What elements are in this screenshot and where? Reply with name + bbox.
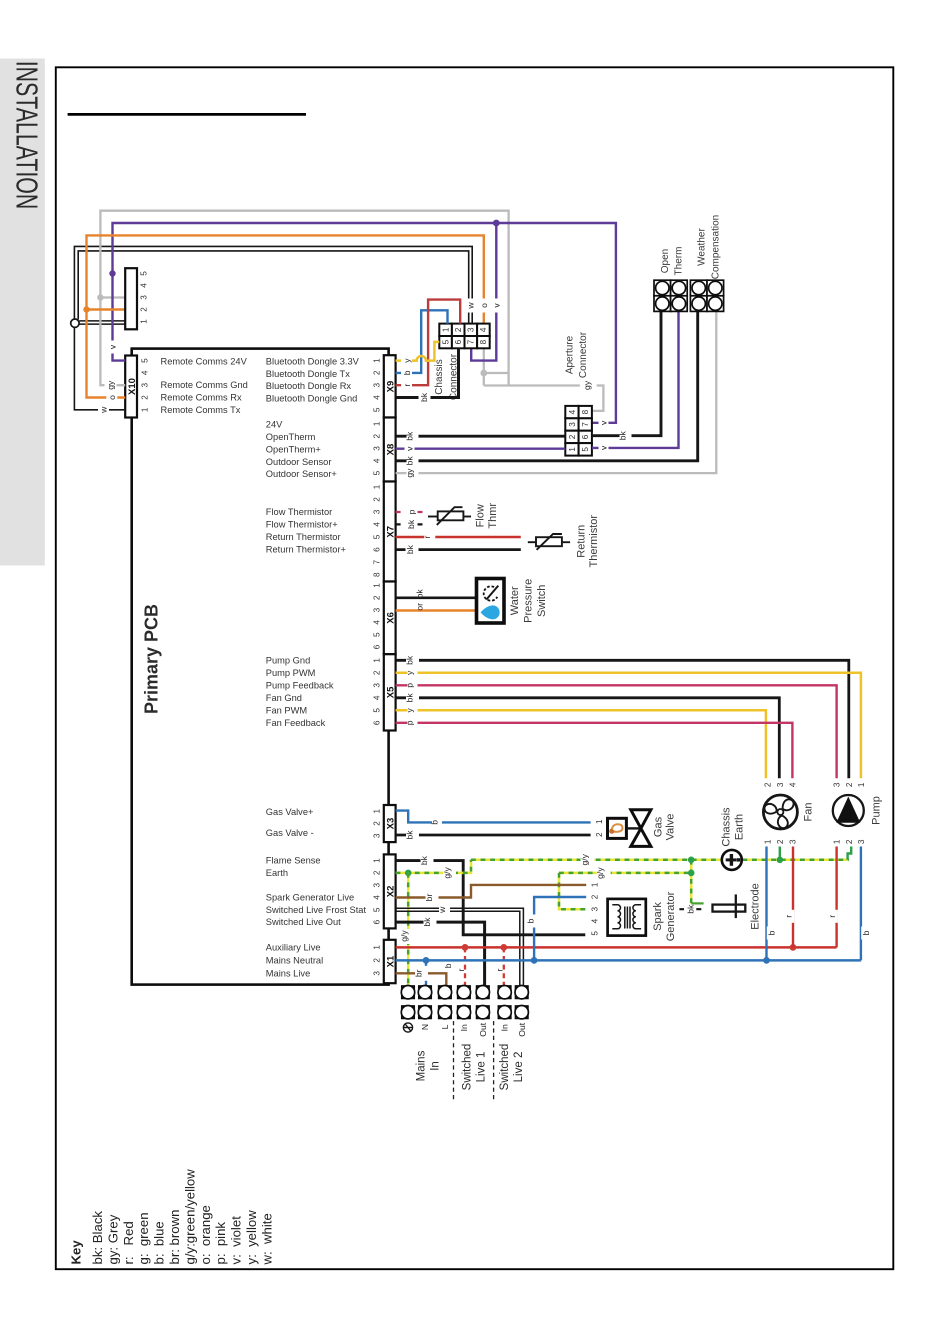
gas valve coil box [608, 818, 627, 838]
svg-text:Thmr: Thmr [487, 503, 499, 529]
svg-text:bk: bk [419, 855, 429, 865]
svg-text:bk: bk [405, 655, 415, 665]
svg-text:Return Thermistor: Return Thermistor [266, 532, 341, 542]
X7 pin function labels [266, 507, 346, 555]
svg-text:7: 7 [372, 559, 381, 564]
svg-text:2: 2 [845, 839, 854, 844]
svg-text:Flame Sense: Flame Sense [266, 856, 321, 866]
wire green fan pin2 to earth line [779, 847, 781, 860]
svg-text:Bluetooth Dongle 3.3V: Bluetooth Dongle 3.3V [266, 357, 360, 367]
svg-text:8: 8 [479, 339, 488, 344]
X10 pin numbers [140, 358, 149, 412]
svg-text:X5: X5 [386, 686, 397, 698]
label o [106, 391, 117, 404]
svg-text:b: b [766, 930, 776, 935]
label bk [405, 828, 420, 843]
aperture connector grid [565, 406, 592, 456]
wire pink X7 pin3 flow thermistor [396, 511, 423, 513]
pass-through connector pin numbers [140, 271, 149, 324]
svg-text:Remote Comms Tx: Remote Comms Tx [161, 405, 241, 415]
svg-text:o: o [479, 303, 489, 308]
svg-text:Bluetooth Dongle Rx: Bluetooth Dongle Rx [266, 381, 352, 391]
page border [56, 67, 894, 1269]
svg-text:N: N [420, 1024, 430, 1030]
svg-text:Flow Thermistor+: Flow Thermistor+ [266, 520, 338, 530]
svg-text:Electrode: Electrode [750, 883, 762, 929]
svg-text:Connector: Connector [578, 331, 589, 378]
svg-text:4: 4 [568, 409, 577, 414]
wire g/y X2 pin2 earth riser [396, 860, 471, 873]
svg-text:Chassis: Chassis [434, 359, 445, 395]
svg-text:Compensation: Compensation [710, 215, 721, 279]
wire blue fan pin1 to neutral [765, 847, 767, 961]
return thermistor symbol [528, 534, 570, 550]
svg-text:1: 1 [372, 421, 381, 426]
svg-text:1: 1 [372, 858, 381, 863]
svg-text:Switched: Switched [461, 1044, 473, 1091]
junction dot grey [480, 370, 487, 377]
svg-text:bk: bk [405, 544, 415, 554]
wire black X5 pin4 fan gnd [396, 698, 780, 778]
wire black X2 pin6 switched live out [396, 922, 485, 986]
svg-text:br: brown: br: brown [167, 1210, 182, 1265]
svg-text:Outdoor Sensor+: Outdoor Sensor+ [266, 469, 337, 479]
wire orange X6 pin3 to water pressure switch [396, 609, 477, 611]
group separator dashed [453, 1021, 455, 1101]
svg-text:3: 3 [140, 295, 149, 300]
X2 pin function labels [266, 856, 367, 928]
wire blue pump pin3 to neutral [860, 847, 862, 961]
svg-text:2: 2 [568, 434, 577, 439]
svg-text:Out: Out [478, 1022, 488, 1036]
svg-text:w: white: w: white [259, 1213, 274, 1265]
svg-text:r: r [827, 915, 837, 918]
svg-text:X8: X8 [386, 444, 397, 456]
svg-text:5: 5 [441, 339, 450, 344]
electrode lead green foot [691, 902, 703, 904]
svg-text:Mains Neutral: Mains Neutral [266, 955, 323, 965]
label bk [419, 853, 434, 868]
wire green pump pin2 to earth line [848, 847, 852, 860]
fan pin numbers bottom [764, 839, 798, 844]
svg-text:Pump Feedback: Pump Feedback [266, 680, 334, 690]
svg-text:Switched Live Out: Switched Live Out [266, 917, 341, 927]
svg-text:6: 6 [454, 339, 463, 344]
svg-text:w: w [437, 906, 447, 914]
svg-text:gy: Grey: gy: Grey [105, 1214, 120, 1264]
wire white remote comms (double line inner) [78, 251, 469, 324]
svg-text:o: o [107, 395, 117, 400]
svg-text:2: 2 [591, 894, 600, 899]
svg-text:OpenTherm+: OpenTherm+ [266, 444, 321, 454]
label y X5 pin5 [405, 704, 418, 717]
wire black aperture cell6 to open therm [592, 312, 661, 436]
remote comms pass-through connector [125, 268, 137, 329]
svg-text:X9: X9 [386, 381, 397, 393]
wire blue drop to mains N terminal [425, 960, 427, 985]
junction dots red [462, 944, 469, 951]
svg-text:v: v [491, 303, 501, 308]
svg-text:w: w [99, 406, 109, 414]
earth terminal symbol [403, 1023, 412, 1032]
connector strip X10 [125, 356, 137, 418]
svg-text:2: 2 [140, 395, 149, 400]
svg-text:1: 1 [764, 839, 773, 844]
water pressure switch box [477, 579, 505, 624]
svg-text:3: 3 [568, 422, 577, 427]
wire black X8 pin4 outdoor sensor to weather comp [396, 312, 698, 461]
svg-text:5: 5 [591, 931, 600, 936]
svg-text:Flow Thermistor: Flow Thermistor [266, 507, 332, 517]
svg-text:Aperture: Aperture [564, 335, 575, 374]
svg-text:Generator: Generator [665, 891, 677, 941]
svg-text:bk: bk [406, 519, 416, 529]
mains terminal block row1 [401, 986, 528, 999]
svg-text:In: In [500, 1024, 510, 1031]
X3 pin function labels [266, 807, 314, 838]
svg-text:Fan: Fan [803, 803, 815, 822]
svg-text:bk: Black: bk: Black [90, 1211, 105, 1265]
X10 pin function labels [161, 357, 248, 415]
svg-text:4: 4 [140, 283, 149, 288]
svg-text:1: 1 [372, 484, 381, 489]
aperture connector pin numbers [568, 409, 590, 451]
wire g/y earth branch line 2 [559, 860, 691, 909]
svg-text:gy: gy [582, 380, 592, 390]
pump symbol [833, 795, 864, 826]
svg-text:Auxiliary Live: Auxiliary Live [266, 942, 321, 952]
pump pin numbers bottom [833, 839, 866, 844]
svg-text:Gas Valve -: Gas Valve - [266, 828, 314, 838]
label bk [405, 542, 419, 557]
label v chassis [491, 299, 501, 313]
svg-text:3: 3 [467, 327, 476, 332]
wire black X2 pin1 flame sense to spark pin5 [396, 861, 586, 935]
svg-text:5: 5 [140, 358, 149, 363]
svg-text:5: 5 [140, 271, 149, 276]
svg-text:1: 1 [372, 808, 381, 813]
svg-text:Spark: Spark [652, 902, 664, 931]
wire black X7 pin6 return thermistor+ [396, 548, 521, 551]
svg-text:Fan Feedback: Fan Feedback [266, 718, 326, 728]
wire blue X9 pin2 to chassis cell1 [396, 310, 448, 373]
svg-text:y: y [402, 358, 412, 363]
svg-text:b: b [526, 918, 536, 923]
svg-text:1: 1 [857, 782, 866, 787]
svg-text:g/y: g/y [442, 866, 452, 878]
label g/y main [580, 852, 595, 867]
wire violet aperture cell5 to open therm [592, 312, 679, 448]
pump pin numbers top [833, 782, 866, 787]
svg-text:4: 4 [479, 327, 488, 332]
label b [861, 927, 871, 940]
svg-text:X7: X7 [386, 526, 397, 538]
svg-text:Chassis: Chassis [720, 807, 732, 847]
X8 pin function labels [266, 419, 337, 479]
svg-text:8: 8 [372, 572, 381, 577]
svg-text:r: r [402, 384, 412, 387]
svg-text:Remote Comms Rx: Remote Comms Rx [161, 393, 242, 403]
junction dot green X2 pin2 [405, 870, 412, 877]
svg-text:Key: Key [69, 1240, 84, 1265]
svg-text:Valve: Valve [664, 814, 676, 841]
svg-text:or: or [415, 603, 425, 611]
label v [107, 341, 118, 354]
svg-text:r: Red: r: Red [121, 1221, 136, 1264]
svg-text:r: r [783, 915, 793, 918]
svg-text:Weather: Weather [696, 228, 707, 266]
junction open circle [71, 319, 79, 327]
svg-text:2: 2 [372, 497, 381, 502]
svg-text:Earth: Earth [733, 814, 745, 840]
svg-text:g/y:green/yellow: g/y:green/yellow [182, 1169, 197, 1265]
svg-text:br: br [424, 894, 434, 902]
X8 pin numbers [372, 421, 381, 475]
svg-text:gy: gy [106, 380, 116, 390]
double link circle to connector pin1 [79, 321, 125, 324]
svg-text:Mains: Mains [415, 1050, 427, 1081]
label w [98, 403, 109, 416]
wire blue riser to spark pin2 [534, 897, 586, 960]
svg-text:Pressure: Pressure [523, 579, 535, 623]
wire black X8 pin2 to aperture cell2 [396, 435, 566, 438]
wire black X5 pin1 pump gnd [396, 660, 849, 778]
svg-text:g/y: g/y [595, 867, 605, 879]
junction dot violet [493, 220, 500, 227]
svg-text:6: 6 [581, 434, 590, 439]
svg-text:3: 3 [788, 839, 797, 844]
wire white X2 pin5 switched live frost (double line) [396, 908, 524, 985]
svg-text:OpenTherm: OpenTherm [266, 432, 316, 442]
gas valve link [626, 827, 641, 829]
wire grey to aperture connector [484, 386, 604, 411]
svg-text:Flow: Flow [475, 504, 487, 527]
svg-text:bk: bk [405, 830, 415, 840]
svg-text:g/y: g/y [399, 930, 409, 942]
wire violet remote comms 24V [113, 223, 616, 423]
wire blue X1 pin2 mains neutral [396, 959, 861, 962]
svg-text:3: 3 [591, 906, 600, 911]
X9 pin function labels [266, 357, 360, 404]
svg-text:Primary PCB: Primary PCB [142, 604, 162, 714]
label r [827, 910, 838, 923]
svg-text:1: 1 [372, 583, 381, 588]
connector strip X1 [384, 940, 396, 983]
svg-text:3: 3 [372, 882, 381, 887]
svg-text:3: 3 [372, 607, 381, 612]
wire black X7 pin4 flow thermistor+ [396, 523, 423, 525]
wire brown X2 pin4 spark generator live [396, 885, 587, 898]
svg-text:3: 3 [372, 509, 381, 514]
svg-text:1: 1 [372, 358, 381, 363]
connector strip X8 [384, 418, 396, 482]
X6 pin numbers [372, 583, 381, 650]
svg-text:b: blue: b: blue [152, 1221, 167, 1264]
svg-text:X10: X10 [127, 378, 138, 395]
electrode black dashed lead [679, 908, 701, 910]
svg-text:Thermistor: Thermistor [588, 515, 600, 568]
connector strip X7 [384, 482, 396, 582]
junction dot grey small connector [97, 294, 103, 300]
label v X8 pin3 [405, 442, 415, 455]
svg-text:2: 2 [372, 433, 381, 438]
svg-text:1: 1 [591, 882, 600, 887]
svg-text:X6: X6 [386, 612, 397, 624]
wire blue X3 pin1 gas valve 1 [396, 811, 591, 823]
svg-text:1: 1 [441, 327, 450, 332]
Primary PCB box [132, 349, 389, 985]
label w [437, 903, 450, 917]
label p X5 pin3 [405, 679, 418, 692]
svg-text:2: 2 [372, 870, 381, 875]
svg-text:Fan Gnd: Fan Gnd [266, 693, 302, 703]
svg-text:Water: Water [509, 586, 521, 615]
svg-text:3: 3 [776, 782, 785, 787]
svg-text:gy: gy [405, 468, 415, 478]
wire g/y drop to mains earth terminal [407, 873, 410, 986]
svg-text:3: 3 [833, 782, 842, 787]
svg-text:y: yellow: y: yellow [244, 1210, 259, 1265]
svg-text:5: 5 [581, 447, 590, 452]
wire black X3 pin3 gas valve 2 [396, 834, 591, 837]
label r [783, 910, 794, 923]
fan symbol [763, 795, 798, 830]
svg-text:Gas Valve+: Gas Valve+ [266, 807, 314, 817]
X9 pin numbers [372, 358, 381, 412]
chassis earth symbol [722, 850, 742, 870]
svg-text:1: 1 [833, 839, 842, 844]
svg-text:3: 3 [372, 446, 381, 451]
water pressure switch gauge [484, 586, 499, 601]
svg-text:Fan PWM: Fan PWM [266, 705, 307, 715]
junction dots green earth [688, 857, 695, 864]
connector strip X5 [384, 654, 396, 730]
svg-text:Remote Comms Gnd: Remote Comms Gnd [161, 380, 248, 390]
svg-text:2: 2 [595, 832, 604, 837]
svg-text:bk: bk [405, 431, 415, 441]
water pressure switch droplet [481, 605, 500, 619]
chassis connector pin numbers [441, 327, 488, 344]
svg-text:1: 1 [140, 407, 149, 412]
label bk [422, 915, 437, 930]
svg-text:3: 3 [372, 683, 381, 688]
label bk X8 pin4 [405, 453, 419, 468]
svg-text:2: 2 [372, 958, 381, 963]
svg-text:5: 5 [372, 708, 381, 713]
svg-text:2: 2 [764, 782, 773, 787]
svg-text:Pump Gnd: Pump Gnd [266, 655, 310, 665]
svg-text:8: 8 [581, 409, 590, 414]
svg-text:Return Thermistor+: Return Thermistor+ [266, 545, 346, 555]
svg-text:y: y [405, 707, 415, 712]
svg-text:p: p [407, 509, 417, 514]
svg-text:X2: X2 [386, 886, 397, 898]
svg-text:bk: bk [419, 392, 429, 402]
svg-text:Bluetooth Dongle Gnd: Bluetooth Dongle Gnd [266, 393, 358, 403]
mains terminal block row2 [401, 1006, 528, 1019]
svg-text:g: green: g: green [136, 1212, 151, 1264]
svg-text:Pump PWM: Pump PWM [266, 668, 316, 678]
svg-text:5: 5 [372, 632, 381, 637]
wire white remote comms (double line outer) [74, 246, 472, 409]
svg-text:INSTALLATION: INSTALLATION [10, 61, 45, 210]
label p X5 pin6 [405, 716, 418, 729]
svg-text:1: 1 [372, 658, 381, 663]
spark generator box [608, 899, 646, 936]
svg-text:X1: X1 [386, 955, 397, 967]
svg-text:2: 2 [845, 782, 854, 787]
X2 pin numbers [372, 858, 381, 925]
connector strip X9 [384, 355, 396, 417]
svg-text:4: 4 [372, 620, 381, 625]
chassis connector grid [439, 324, 489, 349]
svg-text:6: 6 [372, 919, 381, 924]
label r [422, 531, 436, 544]
svg-text:Open: Open [660, 249, 671, 273]
svg-text:Bluetooth Dongle Tx: Bluetooth Dongle Tx [266, 369, 350, 379]
svg-text:L: L [440, 1024, 450, 1029]
label gy [105, 378, 117, 393]
svg-text:p: p [405, 720, 415, 725]
svg-text:X3: X3 [386, 818, 397, 830]
svg-text:Switched Live Frost Stat: Switched Live Frost Stat [266, 905, 367, 915]
weather compensation terminal block [690, 280, 723, 311]
svg-text:7: 7 [467, 339, 476, 344]
connector strip X3 [384, 805, 396, 842]
svg-text:v: v [405, 446, 415, 451]
svg-text:6: 6 [372, 644, 381, 649]
svg-text:Live 1: Live 1 [475, 1052, 487, 1083]
svg-text:v: violet: v: violet [229, 1216, 244, 1265]
wire pink X5 pin3 pump feedback [396, 685, 837, 778]
svg-text:1: 1 [568, 447, 577, 452]
X5 pin function labels [266, 655, 334, 728]
sidebar tab [0, 59, 45, 566]
svg-text:4: 4 [788, 782, 797, 787]
junction dot green fan [777, 857, 784, 864]
wire brown X1 pin3 mains live [396, 973, 447, 985]
svg-text:Spark Generator Live: Spark Generator Live [266, 893, 354, 903]
svg-text:7: 7 [581, 422, 590, 427]
svg-text:p: p [405, 683, 415, 688]
wire red dashed switched live 1 in [464, 947, 466, 985]
svg-text:4: 4 [591, 918, 600, 923]
open therm terminal block [654, 280, 687, 311]
svg-text:3: 3 [140, 382, 149, 387]
wire red X1 pin1 auxiliary live [396, 946, 837, 949]
svg-text:5: 5 [372, 407, 381, 412]
svg-text:3: 3 [372, 833, 381, 838]
svg-text:bk: bk [405, 456, 415, 466]
label v aperture top [598, 416, 608, 430]
svg-text:o: orange: o: orange [198, 1205, 213, 1264]
label bk X8 pin2 [405, 429, 419, 444]
svg-text:5: 5 [372, 907, 381, 912]
svg-text:Remote Comms 24V: Remote Comms 24V [161, 357, 248, 367]
svg-text:r: r [456, 968, 466, 971]
fan pin numbers top [764, 782, 798, 787]
label g/y [442, 865, 456, 880]
svg-text:4: 4 [372, 458, 381, 463]
label b [429, 816, 442, 829]
wire violet X8 pin3 to aperture cell1 [396, 448, 566, 450]
svg-text:5: 5 [372, 470, 381, 475]
svg-text:In: In [459, 1024, 469, 1031]
wire red X7 pin5 return thermistor [396, 536, 521, 538]
svg-text:w: w [466, 302, 476, 310]
label gy aperture [582, 378, 593, 393]
spark generator transformer [612, 905, 641, 929]
